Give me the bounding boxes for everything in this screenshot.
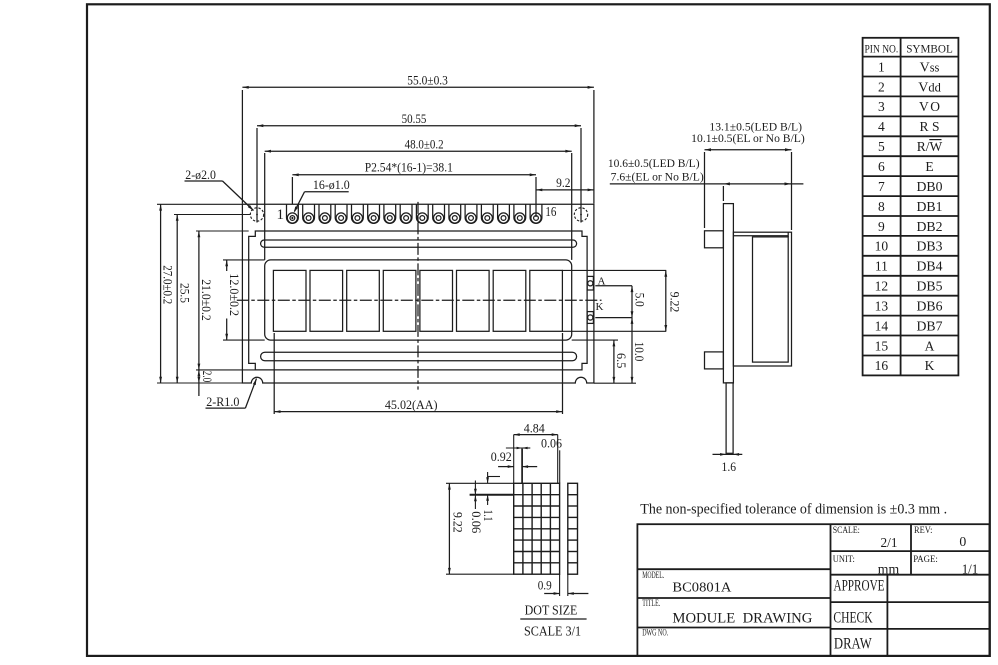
svg-text:MODEL.: MODEL. xyxy=(642,571,664,581)
dimension 55.0+-0.3 xyxy=(242,86,594,88)
svg-text:BC0801A: BC0801A xyxy=(672,580,731,595)
dimension 4.84 (5 dots width) xyxy=(514,434,558,436)
svg-text:0.06: 0.06 xyxy=(541,436,562,450)
dimension P2.54*(16-1)=38.1 (pin pitch) xyxy=(292,174,536,176)
svg-text:0: 0 xyxy=(959,534,966,549)
svg-text:48.0±0.2: 48.0±0.2 xyxy=(405,138,444,152)
side view: LCD glass xyxy=(753,237,789,362)
dimension 27.0+-0.2 (PCB height) xyxy=(160,204,162,383)
svg-text:DB3: DB3 xyxy=(917,239,943,254)
dimension 48.0+-0.2 (window width) xyxy=(265,150,572,152)
side view: bezel tab top xyxy=(705,231,724,248)
side view: pin row xyxy=(726,383,733,453)
dimension 25.5 xyxy=(176,215,178,384)
svg-text:TITLE.: TITLE. xyxy=(642,599,660,609)
metal bezel outline (stepped corners) xyxy=(249,231,587,370)
svg-text:4.84: 4.84 xyxy=(524,421,546,435)
svg-text:REV:: REV: xyxy=(914,526,933,536)
svg-text:10: 10 xyxy=(875,239,889,254)
svg-text:9: 9 xyxy=(878,219,885,234)
dimension 2.0 (bezel to PCB bottom) xyxy=(198,370,200,396)
svg-text:Vdd: Vdd xyxy=(918,80,941,95)
svg-text:DOT SIZE: DOT SIZE xyxy=(525,602,578,617)
svg-text:12.0±0.2: 12.0±0.2 xyxy=(227,273,241,316)
side view: bezel tab bottom xyxy=(705,352,724,369)
svg-text:PIN NO.: PIN NO. xyxy=(865,43,899,55)
svg-text:Vss: Vss xyxy=(920,60,940,75)
dimension 9.2 (pin16 to edge) xyxy=(536,189,594,191)
svg-text:UNIT:: UNIT: xyxy=(833,555,855,565)
dimension 5.0 (A to K) xyxy=(631,286,633,318)
svg-text:SYMBOL: SYMBOL xyxy=(906,43,953,55)
dimension 9.22 (8 dots height) xyxy=(448,483,450,574)
svg-text:27.0±0.2: 27.0±0.2 xyxy=(160,265,174,304)
svg-text:2/1: 2/1 xyxy=(881,535,898,550)
svg-text:DB6: DB6 xyxy=(917,299,943,314)
bottom slot in bezel xyxy=(261,352,577,361)
svg-text:10.0: 10.0 xyxy=(632,342,646,362)
svg-text:APPROVE: APPROVE xyxy=(834,577,885,594)
svg-text:10.1±0.5(EL or No B/L): 10.1±0.5(EL or No B/L) xyxy=(691,133,805,145)
svg-text:1.6: 1.6 xyxy=(722,460,737,474)
mounting hole left (2-x2.0) xyxy=(250,208,263,221)
dimension 6.5 (window bottom to PCB bottom) xyxy=(613,340,615,383)
svg-text:SCALE:: SCALE: xyxy=(833,526,860,536)
16 pin pads with holes (16-x1.0) xyxy=(287,204,299,223)
dimension 1.6 (PCB/pin thickness) xyxy=(713,453,743,455)
svg-text:2: 2 xyxy=(878,79,885,94)
top slot in bezel xyxy=(261,240,577,247)
dot size detail: 5x8 dot grid xyxy=(514,483,560,574)
svg-text:0.06: 0.06 xyxy=(469,511,483,533)
svg-text:DB7: DB7 xyxy=(917,318,943,333)
backlight cathode tab K xyxy=(587,312,593,324)
svg-text:CHECK: CHECK xyxy=(833,610,873,627)
svg-text:7.6±(EL or No B/L): 7.6±(EL or No B/L) xyxy=(611,171,704,183)
svg-text:E: E xyxy=(925,159,933,174)
svg-text:11: 11 xyxy=(875,259,888,274)
svg-text:MODULE DRAWING: MODULE DRAWING xyxy=(672,611,813,627)
side view: PCB board (1.6 thick) xyxy=(723,204,733,383)
svg-text:21.0±0.2: 21.0±0.2 xyxy=(199,279,213,321)
dimension 0.9 (character gap) xyxy=(559,574,561,596)
svg-text:DB4: DB4 xyxy=(917,259,943,274)
svg-text:9.22: 9.22 xyxy=(668,292,682,313)
svg-text:15: 15 xyxy=(875,338,889,353)
svg-text:13.1±0.5(LED B/L): 13.1±0.5(LED B/L) xyxy=(709,121,802,133)
pin assignment table xyxy=(863,38,959,376)
svg-text:45.02(AA): 45.02(AA) xyxy=(385,398,438,412)
svg-text:A: A xyxy=(925,338,935,353)
svg-text:14: 14 xyxy=(875,318,889,333)
svg-text:5.0: 5.0 xyxy=(633,293,647,307)
svg-text:25.5: 25.5 xyxy=(177,283,191,303)
svg-text:6.5: 6.5 xyxy=(614,353,628,368)
svg-text:10.6±0.5(LED B/L): 10.6±0.5(LED B/L) xyxy=(608,158,700,170)
svg-text:6: 6 xyxy=(878,159,885,174)
side view: bezel lip line xyxy=(733,235,788,237)
svg-text:13: 13 xyxy=(875,299,889,314)
vertical center line xyxy=(417,202,419,390)
svg-text:0.9: 0.9 xyxy=(538,579,552,593)
svg-text:SCALE 3/1: SCALE 3/1 xyxy=(524,624,581,639)
svg-text:2-R1.0: 2-R1.0 xyxy=(206,395,239,409)
svg-text:DB2: DB2 xyxy=(917,219,943,234)
svg-text:1: 1 xyxy=(878,59,885,74)
backlight anode tab A xyxy=(587,276,593,290)
dimension 1.1 (dot height) xyxy=(487,472,489,483)
display window (48.0 x 12.0) xyxy=(265,260,572,340)
8 character cells (active area 45.02) xyxy=(273,270,306,331)
horizontal center line xyxy=(237,299,602,301)
svg-text:2-ø2.0: 2-ø2.0 xyxy=(185,168,216,182)
svg-text:0.92: 0.92 xyxy=(491,450,512,464)
leader line A xyxy=(595,285,632,287)
svg-text:VO: VO xyxy=(919,99,940,114)
svg-text:55.0±0.3: 55.0±0.3 xyxy=(407,74,448,88)
dimension 10.0 (K to PCB bottom) xyxy=(631,318,633,384)
svg-text:4: 4 xyxy=(878,119,885,134)
dimension 50.55 (hole centers) xyxy=(257,125,581,127)
mounting hole right (2-x2.0) xyxy=(574,208,587,221)
svg-text:8: 8 xyxy=(878,199,885,214)
svg-text:DWG NO.: DWG NO. xyxy=(642,628,668,638)
svg-text:The non-specified tolerance of: The non-specified tolerance of dimension… xyxy=(640,501,947,517)
svg-text:P2.54*(16-1)=38.1: P2.54*(16-1)=38.1 xyxy=(365,161,453,175)
side view: bezel lip edge xyxy=(787,232,789,237)
dimension 0.06 (row gap) xyxy=(474,481,476,495)
svg-text:K: K xyxy=(925,358,935,373)
dimension 9.22 (AA height) xyxy=(562,269,666,271)
svg-text:1: 1 xyxy=(277,207,285,223)
LCD module front view: PCB outline with 2-R1.0 corner notches xyxy=(242,204,594,383)
svg-text:2.0: 2.0 xyxy=(200,371,214,382)
title block table xyxy=(637,524,989,656)
svg-text:DB5: DB5 xyxy=(917,279,943,294)
dot size detail: adjacent character column xyxy=(568,483,578,574)
svg-text:50.55: 50.55 xyxy=(402,112,427,126)
leader line K xyxy=(595,317,632,319)
svg-text:16: 16 xyxy=(545,204,556,219)
svg-text:5: 5 xyxy=(878,139,885,154)
svg-text:3: 3 xyxy=(878,99,885,114)
dimension 21.0+-0.2 (bezel height) xyxy=(198,231,200,370)
svg-text:9.22: 9.22 xyxy=(451,512,465,533)
svg-text:7: 7 xyxy=(878,179,885,194)
svg-text:16-ø1.0: 16-ø1.0 xyxy=(313,178,350,192)
svg-text:DRAW: DRAW xyxy=(834,636,872,653)
svg-text:mm: mm xyxy=(878,562,900,577)
svg-text:K: K xyxy=(596,301,604,313)
svg-text:9.2: 9.2 xyxy=(556,176,570,190)
dimension 12.0+-0.2 (window height) xyxy=(226,260,228,271)
svg-text:DB1: DB1 xyxy=(917,199,943,214)
svg-text:1/1: 1/1 xyxy=(962,562,979,577)
svg-text:12: 12 xyxy=(875,279,889,294)
side view: bezel body xyxy=(733,232,791,366)
svg-text:PAGE:: PAGE: xyxy=(913,555,938,565)
svg-text:DB0: DB0 xyxy=(917,179,943,194)
svg-text:16: 16 xyxy=(875,358,889,373)
dimension 45.02(AA) active area width xyxy=(274,411,562,413)
svg-text:R/W: R/W xyxy=(917,139,943,154)
